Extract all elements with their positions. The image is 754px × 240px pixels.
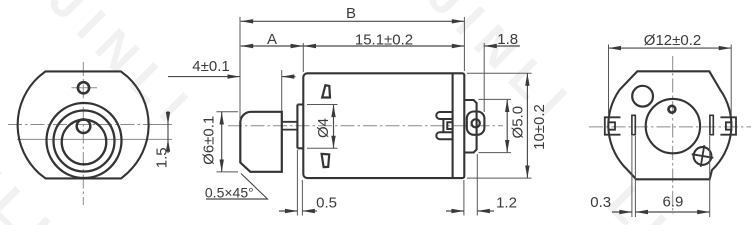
svg-text:JINLI: JINLI <box>417 0 585 136</box>
svg-text:0.5: 0.5 <box>316 195 337 212</box>
svg-text:JINLI: JINLI <box>0 96 69 225</box>
svg-text:1.5: 1.5 <box>154 147 171 168</box>
svg-text:Ø6±0.1: Ø6±0.1 <box>201 116 218 165</box>
svg-text:15.1±0.2: 15.1±0.2 <box>355 32 413 49</box>
svg-text:10±0.2: 10±0.2 <box>531 104 548 150</box>
svg-text:0.5×45°: 0.5×45° <box>205 185 254 201</box>
svg-text:1.2: 1.2 <box>496 195 517 212</box>
svg-text:6.9: 6.9 <box>662 194 683 211</box>
svg-text:Ø4: Ø4 <box>315 118 332 138</box>
svg-text:1.8: 1.8 <box>497 31 518 48</box>
svg-text:Ø5.0: Ø5.0 <box>510 106 527 139</box>
svg-text:4±0.1: 4±0.1 <box>192 58 229 75</box>
svg-text:B: B <box>346 5 356 22</box>
svg-text:Ø12±0.2: Ø12±0.2 <box>644 32 701 49</box>
svg-text:0.3: 0.3 <box>590 194 611 211</box>
svg-text:A: A <box>267 31 277 48</box>
